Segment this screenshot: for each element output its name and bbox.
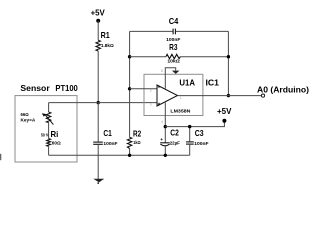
- minus sign: [158, 86, 160, 88]
- svg-text:2: 2: [150, 89, 152, 93]
- wire bottom bus: [49, 154, 190, 156]
- wire R3 left: [130, 56, 166, 58]
- svg-text:Sensor: Sensor: [20, 84, 50, 93]
- plus sign: [158, 103, 161, 106]
- svg-text:100nF: 100nF: [103, 141, 117, 147]
- wire +5V rail: [165, 123, 224, 127]
- left edge artifact: [0, 154, 2, 160]
- node R3 left dot: [128, 55, 131, 58]
- wire C1 top: [97, 103, 99, 142]
- svg-text:Key=A: Key=A: [21, 118, 36, 124]
- svg-text:8: 8: [161, 69, 163, 73]
- svg-text:4: 4: [161, 120, 163, 124]
- svg-text:1: 1: [180, 96, 182, 100]
- wire C3 top: [189, 127, 191, 142]
- capacitor C3: [186, 141, 194, 143]
- resistor 60Ω: [47, 139, 51, 147]
- op-amp box U1A: [144, 74, 203, 115]
- svg-text:C4: C4: [169, 16, 179, 26]
- wire C2 bottom: [164, 146, 166, 155]
- svg-text:Ri: Ri: [51, 129, 59, 139]
- svg-text:C2: C2: [170, 128, 179, 138]
- power +5V top dot: [96, 19, 100, 23]
- wire R3 right: [180, 56, 228, 58]
- wire R1 bottom: [97, 51, 99, 103]
- svg-text:3: 3: [150, 103, 152, 107]
- svg-text:IC1: IC1: [206, 77, 220, 87]
- svg-text:C1: C1: [103, 128, 112, 138]
- svg-text:10kΩ: 10kΩ: [167, 58, 180, 64]
- svg-text:R1: R1: [101, 30, 110, 40]
- wire R2 bottom: [129, 149, 131, 156]
- wire output right vertical: [227, 31, 229, 95]
- svg-text:100nF: 100nF: [194, 141, 208, 147]
- svg-text:C3: C3: [195, 128, 204, 138]
- node R2 bus dot: [128, 154, 131, 157]
- potentiometer Ri: [46, 112, 50, 123]
- sensor box: [15, 96, 77, 162]
- svg-text:R3: R3: [169, 42, 178, 52]
- wire C4 left: [130, 30, 173, 32]
- svg-text:1.8kΩ: 1.8kΩ: [101, 43, 114, 49]
- capacitor C2: [160, 142, 170, 144]
- svg-text:22µF: 22µF: [170, 140, 180, 146]
- resistor R1: [96, 40, 100, 51]
- wire feedback left vertical / R2 top: [129, 31, 131, 137]
- capacitor C1: [93, 141, 103, 143]
- pot wiper arrow: [45, 115, 53, 125]
- terminal A0: [261, 94, 264, 97]
- wire pot bottom: [48, 146, 50, 155]
- wire C4 right: [176, 30, 229, 32]
- resistor R2: [127, 137, 131, 148]
- node main junction dot: [97, 101, 100, 104]
- ground arrow at op-amp: [172, 71, 180, 74]
- op-amp triangle U1A: [157, 85, 178, 106]
- node R3 right dot: [227, 55, 230, 58]
- svg-text:A0 (Arduino): A0 (Arduino): [257, 85, 309, 94]
- svg-text:R2: R2: [133, 128, 141, 138]
- wire output to A0: [178, 95, 262, 97]
- node inverting input dot: [128, 87, 131, 90]
- wire R1 top: [97, 21, 99, 40]
- wire pot top: [48, 103, 50, 112]
- node output dot: [227, 94, 230, 97]
- wire op-amp V- stub bottom: [164, 102, 166, 142]
- svg-text:60Ω: 60Ω: [52, 140, 61, 146]
- svg-text:+5V: +5V: [217, 107, 232, 116]
- svg-text:PT100: PT100: [55, 84, 78, 93]
- wire C3 bottom: [189, 144, 191, 155]
- svg-text:1kΩ: 1kΩ: [133, 140, 141, 146]
- wire inverting input: [130, 88, 157, 90]
- svg-text:LM358N: LM358N: [170, 108, 191, 114]
- capacitor C4: [172, 29, 174, 35]
- wire signal net: [49, 102, 157, 104]
- node V- rail dot: [164, 125, 167, 128]
- node C2 bus dot: [164, 154, 167, 157]
- node C3 rail dot: [188, 125, 191, 128]
- ground: [93, 179, 104, 183]
- svg-text:50 %: 50 %: [41, 132, 49, 138]
- wire pot to 60Ω resistor: [48, 123, 50, 139]
- wire C1 bottom to ground: [97, 144, 99, 179]
- wire op-amp V+ stub top: [165, 68, 175, 89]
- svg-text:66Ω: 66Ω: [21, 112, 29, 118]
- resistor R3: [166, 54, 180, 58]
- svg-text:+5V: +5V: [91, 8, 106, 17]
- power +5V right dot: [222, 119, 226, 123]
- svg-text:U1A: U1A: [179, 77, 195, 87]
